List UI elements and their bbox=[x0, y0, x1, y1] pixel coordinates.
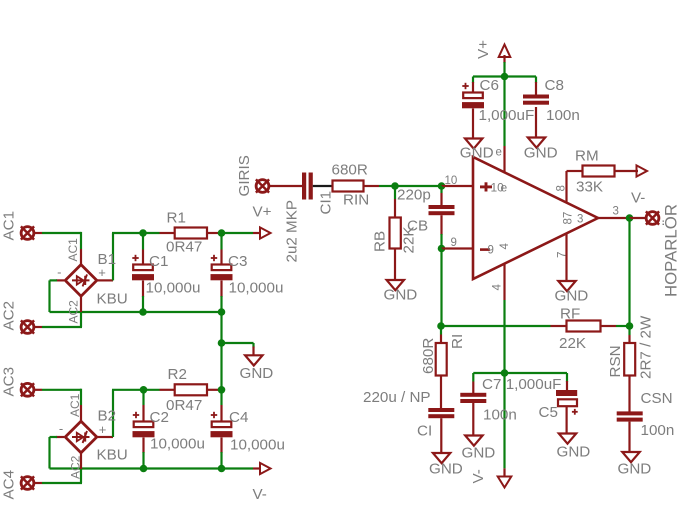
svg-text:33K: 33K bbox=[576, 179, 603, 196]
svg-text:2u2 MKP: 2u2 MKP bbox=[284, 200, 301, 262]
svg-text:GND: GND bbox=[384, 287, 418, 304]
svg-text:CB: CB bbox=[407, 218, 428, 235]
svg-text:0R47: 0R47 bbox=[166, 397, 202, 414]
svg-text:680R: 680R bbox=[420, 338, 437, 374]
svg-text:C8: C8 bbox=[545, 77, 564, 94]
svg-text:RIN: RIN bbox=[343, 192, 369, 209]
svg-text:C1: C1 bbox=[149, 253, 168, 270]
svg-text:220p: 220p bbox=[397, 187, 431, 204]
svg-text:220u / NP: 220u / NP bbox=[363, 389, 431, 406]
svg-text:10,000u: 10,000u bbox=[146, 280, 201, 297]
svg-text:10,000u: 10,000u bbox=[150, 435, 205, 452]
svg-text:4: 4 bbox=[499, 243, 511, 250]
svg-text:C4: C4 bbox=[229, 409, 248, 426]
svg-text:AC4: AC4 bbox=[1, 470, 18, 500]
svg-text:0R47: 0R47 bbox=[166, 239, 202, 256]
svg-text:V-: V- bbox=[631, 190, 645, 207]
svg-text:8: 8 bbox=[556, 185, 568, 191]
svg-text:4: 4 bbox=[492, 284, 504, 291]
svg-text:C3: C3 bbox=[228, 253, 247, 270]
svg-text:7: 7 bbox=[557, 252, 569, 258]
svg-text:HOPARLÖR: HOPARLÖR bbox=[662, 204, 681, 297]
svg-text:AC3: AC3 bbox=[1, 367, 18, 397]
svg-text:CSN: CSN bbox=[641, 390, 673, 407]
svg-text:RB: RB bbox=[372, 231, 389, 252]
svg-text:e: e bbox=[501, 181, 508, 195]
svg-text:R2: R2 bbox=[168, 366, 187, 383]
svg-text:1,000uF: 1,000uF bbox=[506, 376, 562, 393]
svg-text:C2: C2 bbox=[150, 409, 169, 426]
svg-text:KBU: KBU bbox=[97, 447, 128, 464]
svg-text:87: 87 bbox=[563, 212, 575, 225]
svg-text:V-: V- bbox=[253, 486, 267, 503]
svg-text:RI: RI bbox=[449, 334, 466, 349]
svg-text:R1: R1 bbox=[167, 210, 186, 227]
svg-text:1,000uF: 1,000uF bbox=[479, 107, 535, 124]
svg-text:AC2: AC2 bbox=[69, 455, 83, 479]
svg-text:AC1: AC1 bbox=[1, 211, 18, 241]
svg-text:KBU: KBU bbox=[97, 291, 128, 308]
svg-text:GND: GND bbox=[240, 365, 274, 382]
svg-text:10: 10 bbox=[445, 175, 458, 187]
svg-text:100n: 100n bbox=[483, 407, 517, 424]
svg-text:C5: C5 bbox=[539, 404, 558, 421]
svg-text:GND: GND bbox=[555, 288, 589, 305]
svg-text:RSN: RSN bbox=[607, 345, 624, 377]
svg-text:CI1: CI1 bbox=[318, 191, 335, 215]
svg-text:V+: V+ bbox=[253, 204, 272, 221]
svg-text:+: + bbox=[98, 265, 106, 280]
svg-text:e: e bbox=[496, 147, 502, 159]
svg-text:GND: GND bbox=[462, 445, 496, 462]
svg-text:AC2: AC2 bbox=[67, 300, 81, 324]
svg-text:-: - bbox=[59, 421, 63, 436]
svg-text:-: - bbox=[57, 265, 61, 280]
svg-text:AC1: AC1 bbox=[68, 393, 82, 417]
svg-text:V-: V- bbox=[470, 469, 487, 483]
svg-text:GND: GND bbox=[429, 461, 463, 478]
svg-text:AC1: AC1 bbox=[66, 238, 80, 262]
svg-text:C7: C7 bbox=[482, 376, 501, 393]
svg-text:3: 3 bbox=[577, 214, 583, 226]
svg-text:RF: RF bbox=[560, 306, 580, 323]
svg-text:22K: 22K bbox=[559, 335, 586, 352]
svg-text:GIRIS: GIRIS bbox=[236, 155, 253, 196]
svg-text:GND: GND bbox=[524, 144, 558, 161]
svg-text:V+: V+ bbox=[475, 40, 492, 59]
svg-text:CI: CI bbox=[417, 423, 432, 440]
svg-text:GND: GND bbox=[460, 144, 494, 161]
svg-text:RM: RM bbox=[575, 148, 599, 165]
svg-text:3: 3 bbox=[613, 206, 619, 218]
svg-text:C6: C6 bbox=[480, 77, 499, 94]
svg-text:9: 9 bbox=[488, 245, 494, 257]
svg-text:AC2: AC2 bbox=[1, 301, 18, 331]
svg-text:10,000u: 10,000u bbox=[230, 436, 285, 453]
svg-text:680R: 680R bbox=[332, 162, 368, 179]
svg-text:100n: 100n bbox=[546, 107, 580, 124]
svg-text:+: + bbox=[99, 422, 107, 437]
svg-text:10,000u: 10,000u bbox=[229, 280, 284, 297]
svg-text:GND: GND bbox=[618, 461, 652, 478]
svg-text:100n: 100n bbox=[641, 422, 675, 439]
svg-text:9: 9 bbox=[451, 237, 457, 249]
svg-text:2R7 / 2W: 2R7 / 2W bbox=[638, 315, 655, 379]
svg-text:GND: GND bbox=[557, 444, 591, 461]
